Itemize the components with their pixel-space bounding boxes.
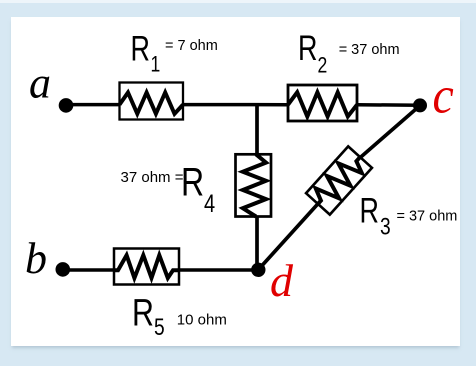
svg-text:= 37 ohm: = 37 ohm [339, 42, 400, 58]
node a terminal dot [59, 98, 74, 113]
svg-text:37 ohm =: 37 ohm = [121, 169, 184, 186]
svg-text:R: R [360, 191, 379, 230]
label R4 [181, 159, 215, 217]
wire node b to node d [63, 268, 258, 272]
svg-text:c: c [433, 66, 454, 124]
resistor R1 [120, 83, 184, 120]
svg-text:= 37 ohm: = 37 ohm [397, 208, 458, 224]
svg-text:= 7 ohm: = 7 ohm [165, 38, 218, 54]
node d junction dot [251, 263, 265, 277]
svg-text:5: 5 [154, 313, 165, 341]
svg-text:R: R [181, 159, 204, 204]
svg-text:3: 3 [380, 212, 391, 240]
svg-text:1: 1 [151, 53, 161, 77]
svg-text:b: b [25, 234, 47, 283]
wire node d to node c (diagonal) [258, 106, 420, 271]
label R4 value 37 ohm = [121, 169, 184, 186]
node b terminal dot [56, 262, 71, 277]
svg-text:R: R [298, 29, 317, 68]
label R2 value = 37 ohm [339, 42, 400, 58]
svg-text:4: 4 [204, 190, 215, 218]
node a label [29, 59, 51, 108]
node b label [25, 234, 47, 283]
label R1 value = 7 ohm [165, 38, 218, 54]
label R3 [360, 191, 391, 240]
svg-text:10 ohm: 10 ohm [177, 312, 227, 329]
svg-text:d: d [270, 255, 294, 306]
label R1 [131, 29, 161, 77]
svg-text:a: a [29, 59, 51, 108]
label R5 [132, 293, 165, 341]
node c label [433, 66, 454, 124]
wire R1 to junction to R2 [183, 103, 288, 107]
svg-text:2: 2 [318, 54, 328, 78]
wire R2 to node c [357, 103, 420, 107]
wire junction down to node d [255, 103, 259, 270]
label R3 value = 37 ohm [397, 208, 458, 224]
resistor R5 [114, 249, 179, 285]
resistor R2 [288, 85, 357, 121]
label R5 value 10 ohm [177, 312, 227, 329]
node c terminal dot [413, 98, 427, 112]
svg-text:R: R [132, 293, 154, 335]
node d label [270, 255, 294, 306]
svg-text:R: R [131, 29, 150, 68]
resistor R3 (diagonal) [306, 146, 372, 214]
wire node a to R1 [66, 103, 120, 107]
resistor R4 [236, 154, 272, 216]
label R2 [298, 29, 327, 78]
